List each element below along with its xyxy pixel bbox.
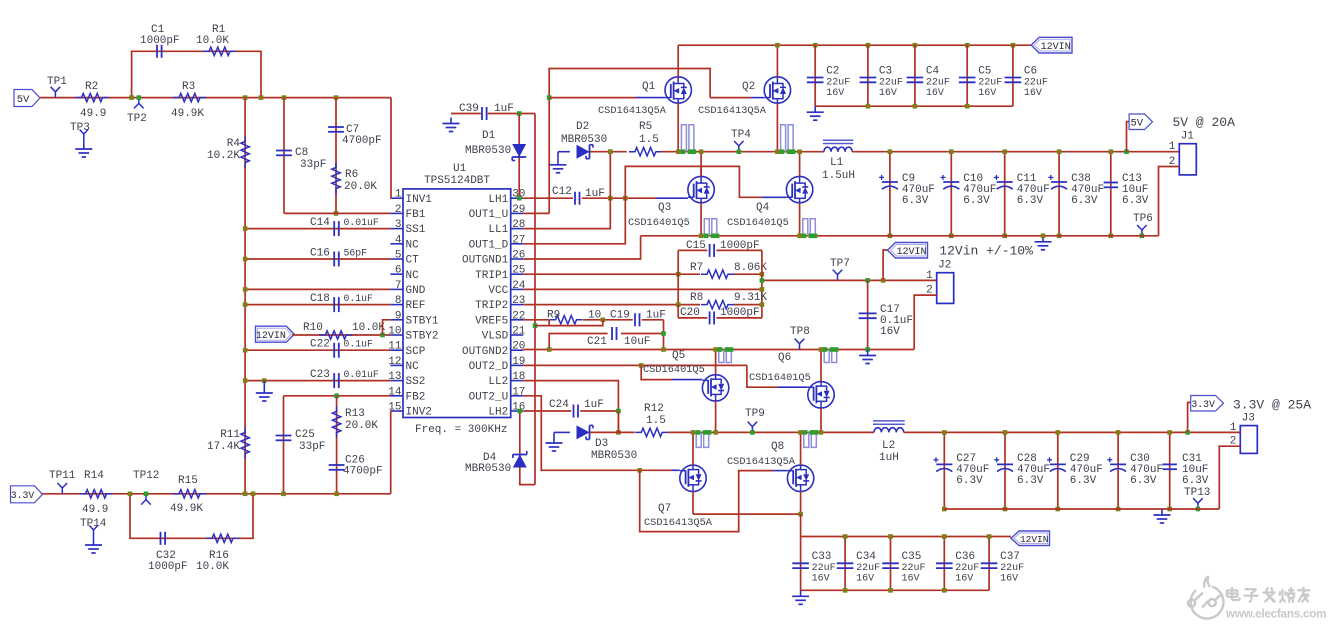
svg-text:CSD16401Q5: CSD16401Q5 bbox=[727, 217, 789, 229]
svg-text:R4: R4 bbox=[227, 138, 241, 150]
svg-text:LL2: LL2 bbox=[488, 376, 508, 388]
svg-text:MBR0530: MBR0530 bbox=[465, 463, 511, 475]
svg-text:TP11: TP11 bbox=[49, 470, 76, 482]
svg-text:3: 3 bbox=[395, 219, 402, 231]
svg-text:TP6: TP6 bbox=[1133, 213, 1153, 225]
svg-text:CSD16401Q5: CSD16401Q5 bbox=[749, 372, 811, 384]
svg-text:3.3V @ 25A: 3.3V @ 25A bbox=[1233, 398, 1311, 413]
svg-text:LH2: LH2 bbox=[488, 407, 508, 419]
svg-text:MBR0530: MBR0530 bbox=[465, 145, 511, 157]
svg-text:6.3V: 6.3V bbox=[1070, 475, 1097, 487]
svg-text:1000pF: 1000pF bbox=[720, 240, 760, 252]
svg-text:MBR0530: MBR0530 bbox=[591, 450, 637, 462]
svg-text:C37: C37 bbox=[1000, 551, 1020, 563]
svg-text:1.5uH: 1.5uH bbox=[822, 170, 855, 182]
svg-text:C3: C3 bbox=[879, 65, 892, 77]
svg-text:1000pF: 1000pF bbox=[140, 35, 180, 47]
svg-text:FB1: FB1 bbox=[406, 209, 426, 221]
svg-text:CSD16413Q5A: CSD16413Q5A bbox=[598, 105, 667, 117]
svg-text:1: 1 bbox=[1169, 141, 1176, 153]
svg-text:TP9: TP9 bbox=[745, 408, 765, 420]
svg-text:4700pF: 4700pF bbox=[342, 135, 382, 147]
svg-text:56pF: 56pF bbox=[344, 248, 368, 259]
svg-text:1uF: 1uF bbox=[584, 399, 604, 411]
svg-text:CSD16413Q5A: CSD16413Q5A bbox=[727, 456, 796, 468]
svg-text:OUT2_U: OUT2_U bbox=[469, 391, 509, 403]
svg-text:22uF: 22uF bbox=[926, 77, 950, 88]
svg-text:3.3V: 3.3V bbox=[11, 490, 35, 501]
svg-text:5V: 5V bbox=[17, 94, 30, 106]
svg-text:10.0K: 10.0K bbox=[196, 561, 229, 573]
svg-text:5: 5 bbox=[395, 250, 402, 262]
svg-text:6.3V: 6.3V bbox=[1182, 475, 1209, 487]
svg-text:Q1: Q1 bbox=[642, 81, 656, 93]
svg-text:4: 4 bbox=[395, 234, 402, 246]
svg-text:OUTGND1: OUTGND1 bbox=[462, 255, 509, 267]
svg-text:6: 6 bbox=[395, 265, 402, 277]
svg-text:1uH: 1uH bbox=[879, 452, 899, 464]
svg-text:22uF: 22uF bbox=[978, 77, 1002, 88]
svg-text:SS2: SS2 bbox=[406, 376, 426, 388]
svg-text:TP2: TP2 bbox=[127, 113, 147, 125]
svg-text:MBR0530: MBR0530 bbox=[561, 134, 607, 146]
svg-text:C18: C18 bbox=[310, 293, 330, 305]
svg-text:20: 20 bbox=[512, 341, 525, 353]
svg-text:R3: R3 bbox=[182, 81, 195, 93]
svg-text:20.0K: 20.0K bbox=[344, 181, 377, 193]
svg-text:22uF: 22uF bbox=[812, 563, 836, 574]
svg-text:C12: C12 bbox=[552, 186, 572, 198]
svg-text:1: 1 bbox=[395, 189, 402, 201]
svg-text:CT: CT bbox=[406, 255, 420, 267]
svg-text:C21: C21 bbox=[587, 336, 607, 348]
svg-text:TP13: TP13 bbox=[1184, 487, 1210, 499]
svg-text:C4: C4 bbox=[926, 65, 940, 77]
svg-text:16V: 16V bbox=[826, 88, 844, 99]
svg-text:C19: C19 bbox=[610, 309, 630, 321]
svg-text:D2: D2 bbox=[576, 121, 589, 133]
svg-text:6.3V: 6.3V bbox=[1122, 195, 1149, 207]
svg-text:C8: C8 bbox=[295, 147, 308, 159]
svg-text:TP12: TP12 bbox=[133, 470, 159, 482]
svg-text:Freq. = 300KHz: Freq. = 300KHz bbox=[415, 424, 507, 436]
svg-text:C34: C34 bbox=[856, 551, 876, 563]
svg-text:R9: R9 bbox=[547, 309, 560, 321]
svg-text:SS1: SS1 bbox=[406, 224, 426, 236]
svg-text:U1: U1 bbox=[453, 163, 467, 175]
svg-text:R5: R5 bbox=[639, 121, 652, 133]
svg-text:TP7: TP7 bbox=[830, 258, 850, 270]
svg-text:FB2: FB2 bbox=[406, 391, 426, 403]
svg-text:TRIP1: TRIP1 bbox=[475, 270, 508, 282]
svg-text:R13: R13 bbox=[345, 408, 365, 420]
svg-text:22uF: 22uF bbox=[955, 563, 979, 574]
svg-text:R6: R6 bbox=[345, 169, 358, 181]
svg-text:22uF: 22uF bbox=[902, 563, 926, 574]
svg-text:16V: 16V bbox=[926, 88, 944, 99]
svg-text:12VIN: 12VIN bbox=[1020, 534, 1049, 545]
svg-text:5V: 5V bbox=[1130, 118, 1143, 130]
svg-text:CSD16401Q5: CSD16401Q5 bbox=[628, 217, 690, 229]
svg-text:VREF5: VREF5 bbox=[475, 315, 508, 327]
svg-text:Q5: Q5 bbox=[672, 350, 685, 362]
svg-text:TRIP2: TRIP2 bbox=[475, 300, 508, 312]
svg-text:0.1uF: 0.1uF bbox=[344, 293, 374, 304]
svg-text:C16: C16 bbox=[310, 248, 330, 260]
svg-text:5V @ 20A: 5V @ 20A bbox=[1173, 115, 1236, 130]
svg-text:12VIN: 12VIN bbox=[256, 331, 286, 342]
svg-text:C25: C25 bbox=[295, 429, 315, 441]
svg-text:16V: 16V bbox=[879, 88, 897, 99]
svg-text:NC: NC bbox=[406, 361, 420, 373]
svg-text:6.3V: 6.3V bbox=[902, 195, 929, 207]
svg-text:1000pF: 1000pF bbox=[720, 307, 760, 319]
svg-text:R12: R12 bbox=[644, 403, 664, 415]
svg-text:16V: 16V bbox=[955, 574, 973, 585]
svg-text:9.31K: 9.31K bbox=[734, 292, 767, 304]
svg-text:Q3: Q3 bbox=[658, 202, 671, 214]
svg-text:SCP: SCP bbox=[406, 346, 426, 358]
svg-text:4700pF: 4700pF bbox=[343, 466, 383, 478]
svg-text:C14: C14 bbox=[310, 217, 330, 229]
svg-text:6.3V: 6.3V bbox=[956, 475, 983, 487]
svg-text:0.01uF: 0.01uF bbox=[344, 369, 379, 380]
svg-text:INV2: INV2 bbox=[406, 407, 432, 419]
svg-text:CSD16401Q5: CSD16401Q5 bbox=[643, 364, 705, 376]
svg-text:TP3: TP3 bbox=[70, 122, 90, 134]
svg-text:CSD16413Q5A: CSD16413Q5A bbox=[644, 517, 713, 529]
svg-text:1uF: 1uF bbox=[646, 309, 666, 321]
svg-text:16V: 16V bbox=[856, 574, 874, 585]
svg-text:OUT2_D: OUT2_D bbox=[469, 361, 509, 373]
svg-text:21: 21 bbox=[512, 326, 526, 338]
svg-text:Q8: Q8 bbox=[771, 441, 784, 453]
svg-text:R8: R8 bbox=[690, 292, 703, 304]
svg-text:VLSD: VLSD bbox=[482, 331, 509, 343]
svg-text:NC: NC bbox=[406, 270, 420, 282]
svg-text:TPS5124DBT: TPS5124DBT bbox=[424, 175, 490, 187]
svg-text:C36: C36 bbox=[955, 551, 975, 563]
svg-text:17.4K: 17.4K bbox=[207, 441, 240, 453]
svg-text:R11: R11 bbox=[220, 429, 240, 441]
svg-text:R2: R2 bbox=[85, 81, 98, 93]
svg-text:16V: 16V bbox=[1000, 574, 1018, 585]
svg-text:www.elecfans.com: www.elecfans.com bbox=[1225, 607, 1326, 621]
svg-text:LL1: LL1 bbox=[488, 224, 508, 236]
svg-text:GND: GND bbox=[406, 285, 426, 297]
svg-text:INV1: INV1 bbox=[406, 194, 433, 206]
svg-text:Q4: Q4 bbox=[756, 202, 770, 214]
svg-text:L1: L1 bbox=[830, 157, 844, 169]
svg-text:3.3V: 3.3V bbox=[1191, 399, 1215, 410]
svg-text:C15: C15 bbox=[686, 240, 706, 252]
svg-text:22uF: 22uF bbox=[1024, 77, 1048, 88]
svg-text:22uF: 22uF bbox=[1000, 563, 1024, 574]
svg-text:C2: C2 bbox=[826, 65, 839, 77]
svg-text:16V: 16V bbox=[812, 574, 830, 585]
svg-text:1.5: 1.5 bbox=[646, 415, 666, 427]
svg-text:10uF: 10uF bbox=[624, 336, 650, 348]
svg-text:49.9: 49.9 bbox=[82, 504, 108, 516]
svg-text:33pF: 33pF bbox=[300, 159, 326, 171]
svg-text:49.9K: 49.9K bbox=[170, 503, 203, 515]
svg-text:49.9K: 49.9K bbox=[171, 108, 204, 120]
svg-text:12VIN: 12VIN bbox=[1041, 42, 1071, 53]
svg-text:10.2K: 10.2K bbox=[207, 150, 240, 162]
svg-text:OUTGND2: OUTGND2 bbox=[462, 346, 508, 358]
svg-text:16V: 16V bbox=[880, 326, 900, 338]
svg-text:0.1uF: 0.1uF bbox=[344, 339, 374, 350]
svg-text:J1: J1 bbox=[1181, 131, 1195, 143]
svg-text:49.9: 49.9 bbox=[80, 108, 106, 120]
svg-text:1000pF: 1000pF bbox=[148, 561, 188, 573]
svg-text:NC: NC bbox=[406, 239, 420, 251]
svg-text:Q6: Q6 bbox=[778, 352, 791, 364]
svg-text:R14: R14 bbox=[84, 470, 104, 482]
svg-text:22uF: 22uF bbox=[856, 563, 880, 574]
svg-text:9: 9 bbox=[395, 310, 402, 322]
svg-text:12Vin +/-10%: 12Vin +/-10% bbox=[939, 244, 1033, 259]
svg-text:6.3V: 6.3V bbox=[1071, 195, 1098, 207]
svg-text:6.3V: 6.3V bbox=[1130, 475, 1157, 487]
svg-text:1: 1 bbox=[926, 270, 933, 282]
svg-text:CSD16413Q5A: CSD16413Q5A bbox=[698, 105, 767, 117]
svg-text:Q7: Q7 bbox=[658, 503, 671, 515]
svg-text:Q2: Q2 bbox=[742, 81, 755, 93]
svg-text:16V: 16V bbox=[1024, 88, 1042, 99]
svg-text:R15: R15 bbox=[178, 475, 198, 487]
svg-text:22uF: 22uF bbox=[879, 77, 903, 88]
svg-text:0.01uF: 0.01uF bbox=[344, 217, 379, 228]
svg-text:16V: 16V bbox=[902, 574, 920, 585]
svg-text:OUT1_U: OUT1_U bbox=[469, 209, 509, 221]
svg-text:D3: D3 bbox=[595, 438, 608, 450]
svg-text:12: 12 bbox=[388, 356, 401, 368]
svg-text:C35: C35 bbox=[902, 551, 922, 563]
svg-text:TP14: TP14 bbox=[80, 518, 107, 530]
svg-text:OUT1_D: OUT1_D bbox=[469, 239, 509, 251]
svg-text:C24: C24 bbox=[549, 399, 569, 411]
svg-text:33pF: 33pF bbox=[299, 441, 325, 453]
svg-text:VCC: VCC bbox=[488, 285, 508, 297]
svg-text:6.3V: 6.3V bbox=[1017, 475, 1044, 487]
svg-text:C33: C33 bbox=[812, 551, 832, 563]
svg-text:7: 7 bbox=[395, 280, 402, 292]
svg-text:C22: C22 bbox=[310, 339, 330, 351]
svg-text:J3: J3 bbox=[1242, 413, 1255, 425]
svg-text:LH1: LH1 bbox=[488, 194, 508, 206]
svg-text:C39: C39 bbox=[459, 103, 479, 115]
svg-text:2: 2 bbox=[395, 204, 402, 216]
svg-text:12VIN: 12VIN bbox=[896, 247, 926, 258]
svg-text:STBY2: STBY2 bbox=[406, 331, 439, 343]
svg-text:REF: REF bbox=[406, 300, 426, 312]
svg-text:C5: C5 bbox=[978, 65, 991, 77]
svg-text:J2: J2 bbox=[938, 260, 951, 272]
svg-text:TP1: TP1 bbox=[47, 76, 67, 88]
svg-text:22uF: 22uF bbox=[826, 77, 850, 88]
svg-text:R7: R7 bbox=[690, 262, 703, 274]
svg-text:16V: 16V bbox=[978, 88, 996, 99]
svg-text:10.0K: 10.0K bbox=[352, 322, 385, 334]
svg-text:R10: R10 bbox=[303, 322, 323, 334]
svg-text:1.5: 1.5 bbox=[639, 134, 659, 146]
svg-text:20.0K: 20.0K bbox=[345, 420, 378, 432]
svg-text:C6: C6 bbox=[1024, 65, 1037, 77]
svg-text:D1: D1 bbox=[482, 130, 496, 142]
svg-text:L2: L2 bbox=[882, 440, 895, 452]
svg-text:C20: C20 bbox=[680, 307, 700, 319]
svg-text:10.0K: 10.0K bbox=[196, 35, 229, 47]
svg-text:1: 1 bbox=[1230, 422, 1237, 434]
svg-text:C23: C23 bbox=[310, 369, 330, 381]
svg-text:TP8: TP8 bbox=[790, 326, 810, 338]
svg-text:TP4: TP4 bbox=[731, 129, 751, 141]
svg-text:STBY1: STBY1 bbox=[406, 315, 439, 327]
svg-text:8: 8 bbox=[395, 295, 402, 307]
svg-text:6.3V: 6.3V bbox=[963, 195, 990, 207]
svg-text:6.3V: 6.3V bbox=[1017, 195, 1044, 207]
